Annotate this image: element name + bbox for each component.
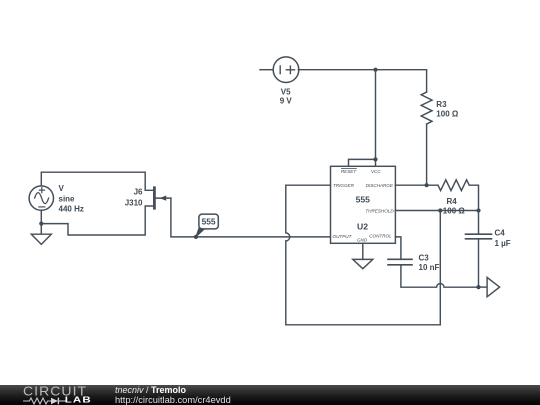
svg-text:C4: C4 — [495, 228, 506, 237]
wire C4 bottom — [478, 239, 480, 287]
wire DISCHARGE stub — [395, 184, 437, 186]
svg-text:U2: U2 — [357, 222, 368, 232]
wire THRESHOLD row — [395, 210, 478, 212]
resistor R4 — [438, 180, 469, 191]
wire gate down to 555 output row — [171, 198, 331, 237]
wire GND stub of U2 — [362, 243, 364, 259]
node junction dot at ground node — [39, 222, 43, 226]
wire V source bottom to ground node — [40, 210, 42, 223]
wire R3 bottom to discharge node — [426, 124, 428, 185]
svg-text:DISCHARGE: DISCHARGE — [366, 183, 394, 188]
svg-text:555: 555 — [356, 195, 371, 205]
CircuitLab logo text CIRCUIT — [23, 384, 87, 398]
svg-text:TRIGGER: TRIGGER — [333, 183, 355, 188]
svg-text:R3: R3 — [436, 100, 447, 109]
node junction dot on top rail — [373, 68, 377, 72]
output flag arrow — [487, 277, 500, 296]
svg-text:CONTROL: CONTROL — [369, 234, 392, 239]
node junction dot threshold tee — [438, 208, 442, 212]
wire JFET source return to ground node — [41, 206, 153, 235]
svg-text:J6: J6 — [134, 187, 143, 196]
wire right vertical up to threshold row — [439, 211, 441, 325]
svg-text:440 Hz: 440 Hz — [59, 205, 84, 214]
voltage source V5 (9V battery) — [273, 57, 299, 83]
footer bar — [0, 385, 540, 405]
wire C3 bottom row with hop to output node — [401, 265, 479, 287]
svg-text:100 Ω: 100 Ω — [443, 206, 466, 215]
wire stub to output arrow — [479, 286, 488, 288]
svg-text:V5: V5 — [281, 87, 291, 96]
wire R4 right to C4 top — [470, 185, 479, 234]
svg-text:10 nF: 10 nF — [419, 263, 440, 272]
ground symbol G2 — [353, 259, 373, 268]
svg-text:J310: J310 — [125, 199, 143, 208]
footer credit line — [115, 385, 186, 395]
U2 RESET pin overline — [341, 168, 356, 170]
svg-text:OUTPUT: OUTPUT — [333, 234, 353, 239]
wire RESET-VCC bracket — [349, 159, 376, 166]
footer url line — [115, 395, 231, 405]
ground symbol G1 — [31, 224, 51, 245]
CircuitLab logo LAB — [65, 396, 92, 405]
capacitor C3 — [388, 259, 412, 265]
op-amp U2 555 timer box — [331, 166, 396, 243]
wire TRIGGER to bottom loop with hop over output row — [286, 185, 441, 325]
svg-text:GND: GND — [357, 237, 368, 242]
transistor J6 gate wire with arrow — [156, 197, 171, 199]
svg-text:R4: R4 — [447, 197, 458, 206]
node flag 555 tail — [196, 227, 205, 237]
resistor R3 — [421, 92, 432, 124]
svg-text:C3: C3 — [419, 253, 430, 262]
wire top rail V5 to R3 — [298, 70, 426, 92]
wire top rail from V source to JFET drain — [41, 172, 153, 190]
svg-text:THRESHOLD: THRESHOLD — [365, 208, 394, 213]
node flag 555 box — [199, 214, 218, 229]
svg-text:555: 555 — [202, 217, 216, 227]
wire VCC drop from top rail — [375, 70, 377, 160]
transistor Q1 JFET J6 channel bar — [153, 188, 156, 208]
node junction dot threshold right — [476, 208, 480, 212]
voltage source V1 (sine) — [29, 186, 53, 210]
wire V5 left open stub — [260, 69, 273, 71]
svg-text:VCC: VCC — [371, 169, 381, 174]
svg-text:RESET: RESET — [341, 169, 358, 174]
node junction dot discharge — [425, 183, 429, 187]
node junction dot at VCC bracket — [373, 157, 377, 161]
svg-text:100 Ω: 100 Ω — [436, 110, 459, 119]
svg-text:1 µF: 1 µF — [495, 239, 511, 248]
svg-text:V: V — [59, 184, 65, 193]
CircuitLab logo resistor zigzag and diode — [23, 396, 67, 405]
node flag 555 attach dot — [194, 235, 198, 239]
wire CONTROL stub down to C3 — [395, 237, 401, 259]
svg-text:9 V: 9 V — [280, 96, 293, 105]
node junction dot output net — [476, 285, 480, 289]
capacitor C4 — [466, 234, 492, 239]
svg-text:sine: sine — [59, 194, 76, 203]
